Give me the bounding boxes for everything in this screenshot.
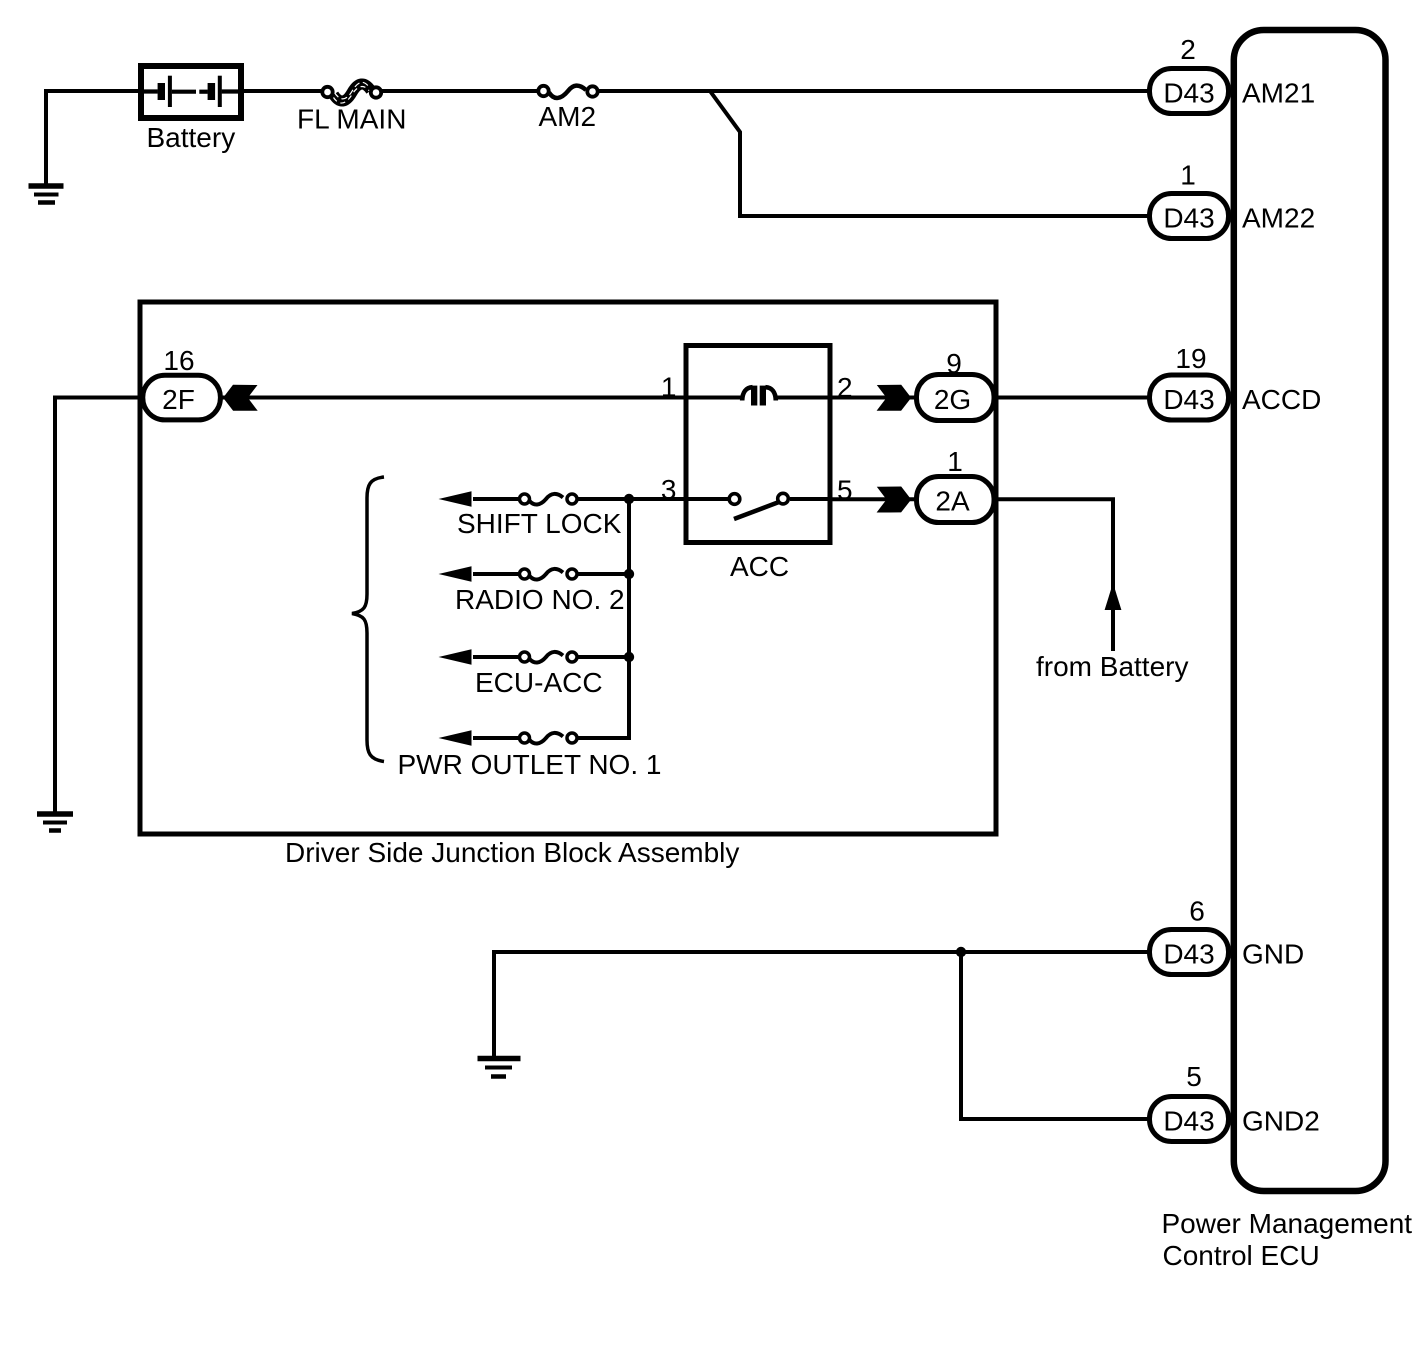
wire battery left lead (46, 91, 141, 186)
arrow into 2G (right pennant) (877, 385, 912, 411)
connector pill D43 GND (1150, 930, 1229, 975)
svg-text:2A: 2A (935, 486, 970, 517)
svg-text:1: 1 (661, 372, 677, 403)
svg-text:2: 2 (1180, 34, 1196, 65)
svg-text:from Battery: from Battery (1036, 651, 1188, 682)
brace (352, 477, 384, 762)
svg-text:D43: D43 (1163, 384, 1214, 415)
wire GND row (494, 952, 1149, 1056)
svg-text:6: 6 (1189, 896, 1205, 927)
fusible link FL MAIN (322, 82, 381, 103)
svg-text:GND2: GND2 (1242, 1106, 1320, 1137)
svg-text:5: 5 (1186, 1061, 1202, 1092)
svg-text:PWR OUTLET NO. 1: PWR OUTLET NO. 1 (398, 749, 662, 780)
svg-text:AM2: AM2 (539, 101, 597, 132)
svg-text:1: 1 (947, 446, 963, 477)
svg-text:Driver Side Junction Block Ass: Driver Side Junction Block Assembly (285, 837, 739, 868)
ACC switch box (686, 346, 830, 543)
connector pill D43 AM21 (1150, 69, 1229, 114)
ground G3 (GND) (478, 1059, 521, 1077)
connector pill D43 GND2 (1150, 1097, 1229, 1142)
svg-text:ACC: ACC (730, 551, 789, 582)
svg-text:D43: D43 (1163, 78, 1214, 109)
svg-text:2G: 2G (934, 384, 971, 415)
svg-text:1: 1 (1180, 160, 1196, 191)
fuse row bus (627, 499, 631, 738)
arrow into 2F (left pennant) (223, 385, 258, 411)
wire FL MAIN to AM2 (382, 89, 538, 93)
junction dot GND (956, 947, 966, 957)
svg-text:ECU-ACC: ECU-ACC (475, 667, 603, 698)
fuse AM2 (538, 86, 597, 98)
wire 2F to ground (55, 398, 138, 813)
ground G1 (battery) (29, 186, 64, 203)
junction dot row2 (624, 569, 634, 579)
svg-text:D43: D43 (1163, 939, 1214, 970)
battery B1 (141, 66, 241, 118)
svg-text:16: 16 (163, 345, 194, 376)
wire GND2 branch (961, 952, 1149, 1119)
label Power Management Control ECU (1162, 1208, 1413, 1271)
wire 2G row (box to ECU) (830, 396, 1149, 400)
junction block box (Driver Side Junction Block Assembly) (140, 302, 996, 834)
connector pill D43 ACCD (1150, 375, 1229, 420)
connector pill D43 AM22 (1150, 194, 1229, 239)
svg-text:AM21: AM21 (1242, 78, 1315, 109)
arrow from battery (up) (1105, 583, 1122, 610)
wire AM2 to pin AM21 (598, 89, 1149, 93)
svg-text:FL MAIN: FL MAIN (297, 104, 406, 135)
Power Management Control ECU box (1234, 30, 1386, 1191)
svg-text:9: 9 (946, 348, 962, 379)
svg-text:GND: GND (1242, 939, 1304, 970)
svg-text:D43: D43 (1163, 1106, 1214, 1137)
svg-text:SHIFT LOCK: SHIFT LOCK (457, 508, 622, 539)
svg-text:ACCD: ACCD (1242, 384, 1321, 415)
fuse RADIO NO. 2 row (439, 566, 632, 615)
wire 2A row from box to corner (830, 499, 1113, 651)
connector pill 2G (917, 375, 995, 421)
fuse PWR OUTLET NO. 1 row (398, 730, 662, 780)
ground G2 (2F) (37, 814, 73, 831)
fuse SHIFT LOCK row (439, 491, 632, 539)
wire battery to FL MAIN (241, 89, 322, 93)
wire 2F row inside box (221, 396, 686, 400)
junction dot row3 (624, 652, 634, 662)
svg-text:AM22: AM22 (1242, 203, 1315, 234)
svg-text:RADIO NO. 2: RADIO NO. 2 (455, 584, 625, 615)
fuse ECU-ACC row (439, 649, 632, 698)
svg-text:19: 19 (1175, 343, 1206, 374)
junction dot row1 (624, 494, 634, 504)
ignition contact symbol (ACC top) (686, 386, 830, 406)
arrow into 2A (right pennant) (877, 487, 912, 513)
connector pill 2F (143, 375, 221, 420)
wire branch to AM22 (710, 91, 1149, 216)
svg-text:2F: 2F (162, 384, 195, 415)
svg-text:D43: D43 (1163, 203, 1214, 234)
svg-text:Control ECU: Control ECU (1163, 1240, 1320, 1271)
connector pill 2A (917, 477, 995, 523)
svg-text:Power Management: Power Management (1162, 1208, 1413, 1239)
svg-text:Battery: Battery (147, 122, 236, 153)
switch contact ACC (bottom row) (631, 493, 830, 519)
